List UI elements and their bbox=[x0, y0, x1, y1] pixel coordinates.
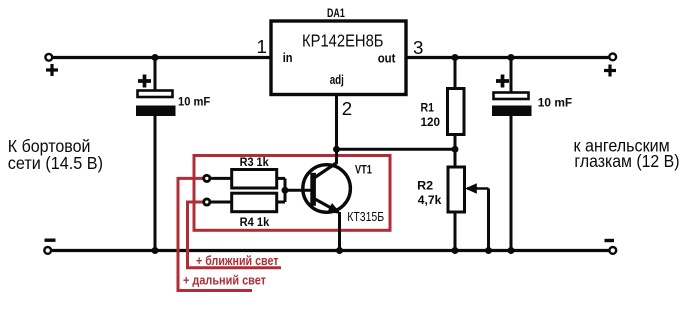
capacitor C1 10 mF (electrolytic, left) bbox=[138, 75, 151, 88]
red wire to near-beam (from lower terminal) bbox=[188, 202, 282, 268]
op-amp U1: regulator IC DA1 body bbox=[271, 21, 406, 95]
terminal - output (right) bbox=[609, 247, 616, 254]
svg-text:R3 1k: R3 1k bbox=[240, 155, 269, 169]
node bottom rail / R2 bbox=[452, 247, 459, 254]
wire base lead bbox=[285, 189, 311, 192]
resistor R4 body bbox=[232, 193, 277, 212]
red control box bbox=[194, 156, 390, 231]
wire R3 right lead bbox=[277, 177, 285, 180]
capacitor C2 10 mF (electrolytic, right) bbox=[496, 75, 509, 88]
wire top rail left bbox=[53, 56, 271, 59]
wire terminal to R4 bbox=[210, 201, 232, 204]
svg-text:1: 1 bbox=[257, 36, 267, 57]
svg-text:R4 1k: R4 1k bbox=[240, 215, 270, 229]
wire R2 bottom lead bbox=[454, 212, 457, 251]
node bottom rail / C1 bbox=[152, 247, 159, 254]
node bottom rail / C2 bbox=[508, 247, 515, 254]
svg-text:10 mF: 10 mF bbox=[178, 96, 210, 108]
svg-text:4,7k: 4,7k bbox=[418, 193, 442, 207]
terminal - input (left) bbox=[44, 247, 51, 254]
node base junction bbox=[282, 187, 289, 194]
wire top rail right (pin 3 to + output) bbox=[406, 56, 609, 59]
wire terminal to R3 bbox=[210, 177, 232, 180]
wire R1 bottom lead bbox=[454, 135, 457, 168]
svg-text:+ дальний свет: + дальний свет bbox=[183, 274, 266, 288]
svg-text:in: in bbox=[283, 51, 293, 65]
wire C2 bottom lead bbox=[510, 116, 513, 251]
transistor Q1 VT1 circle bbox=[303, 165, 351, 213]
svg-text:120: 120 bbox=[421, 115, 441, 129]
svg-text:10 mF: 10 mF bbox=[538, 98, 572, 110]
transistor emitter stroke with arrow bbox=[314, 199, 333, 210]
red wire to far-beam (from upper terminal) bbox=[178, 178, 252, 290]
wire adj to R1/R2 junction bbox=[337, 148, 456, 151]
svg-text:сети (14.5 В): сети (14.5 В) bbox=[8, 153, 103, 173]
svg-text:DA1: DA1 bbox=[327, 8, 345, 20]
wire C2 top lead bbox=[510, 58, 513, 93]
wire R2 wiper down to rail bbox=[487, 189, 490, 251]
terminal + output (right) bbox=[609, 54, 616, 61]
svg-text:adj: adj bbox=[330, 73, 344, 87]
wire C1 top lead bbox=[154, 58, 157, 92]
wire bottom rail bbox=[52, 249, 609, 252]
svg-text:глазкам (12 В): глазкам (12 В) bbox=[574, 151, 679, 171]
node junction top rail / R1 bbox=[452, 54, 459, 61]
svg-text:out: out bbox=[378, 52, 397, 66]
node adj/collector junction bbox=[333, 146, 340, 153]
terminal ring lower (to R4) bbox=[204, 199, 210, 205]
node junction top rail / C1 bbox=[152, 54, 159, 61]
node R1/R2 junction bbox=[452, 146, 459, 153]
wire R4 right lead bbox=[277, 201, 285, 204]
svg-text:2: 2 bbox=[342, 98, 352, 119]
node bottom rail / wiper bbox=[485, 247, 492, 254]
node junction top rail / C2 bbox=[508, 54, 515, 61]
wire C1 bottom lead bbox=[154, 116, 157, 251]
wire R1 top lead bbox=[454, 58, 457, 90]
wire emitter down to rail bbox=[338, 212, 341, 251]
wire R2 wiper arm bbox=[467, 187, 489, 190]
wire joining R3/R4 outputs bbox=[284, 178, 287, 202]
transistor collector stroke bbox=[314, 163, 337, 179]
node bottom rail / emitter bbox=[336, 247, 343, 254]
wire collector up to adj node bbox=[335, 149, 338, 164]
resistor R3 body bbox=[232, 170, 277, 189]
svg-text:R1: R1 bbox=[421, 101, 435, 115]
wire pin 2 (adj) down bbox=[335, 95, 338, 150]
svg-text:+ ближний свет: + ближний свет bbox=[196, 254, 279, 268]
svg-text:КР142ЕН8Б: КР142ЕН8Б bbox=[302, 31, 384, 51]
wiper arrowhead bbox=[465, 183, 477, 194]
svg-text:R2: R2 bbox=[417, 179, 433, 193]
svg-text:КТ315Б: КТ315Б bbox=[347, 209, 384, 224]
resistor R1 body bbox=[448, 89, 465, 135]
terminal + input (left) bbox=[45, 54, 52, 61]
svg-text:VT1: VT1 bbox=[355, 165, 372, 177]
resistor R2 body (potentiometer) bbox=[448, 167, 465, 212]
terminal ring upper (to R3) bbox=[204, 175, 210, 181]
transistor base bar bbox=[310, 173, 316, 206]
svg-text:3: 3 bbox=[413, 37, 423, 58]
